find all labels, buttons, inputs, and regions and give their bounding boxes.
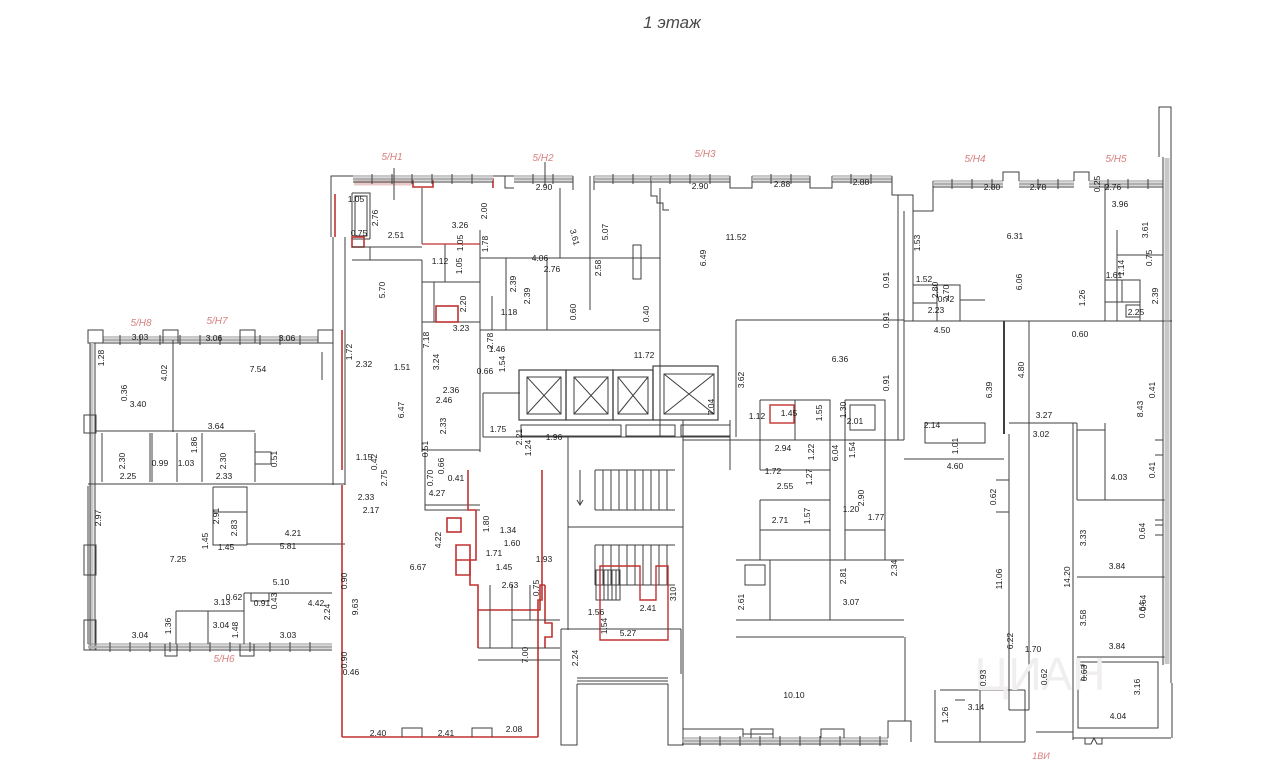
svg-text:2.36: 2.36 [443,385,460,395]
porch steps right [683,738,773,744]
left wing bottom pilaster 1 [165,644,177,656]
elevator shaft 4 box [664,374,714,414]
main body left wall gray 237-330 [333,237,345,485]
wall 3.24 right [479,322,481,452]
svg-text:2.41: 2.41 [438,728,455,738]
svg-text:1.45: 1.45 [781,408,798,418]
svg-text:2.91: 2.91 [211,507,221,524]
svg-text:2.20: 2.20 [458,295,468,312]
room 11.52 left wall [659,330,661,437]
room 1.05 2.76 box [352,193,370,239]
elevator lobby wall vertical x730 [729,420,731,470]
svg-text:7.04: 7.04 [706,398,716,415]
elevator shaft 1 X [527,377,561,414]
svg-text:6.22: 6.22 [1005,632,1015,649]
bottom right step 10.10 [888,721,905,738]
svg-text:2.76: 2.76 [370,209,380,226]
section small rooms bottom [736,559,904,561]
svg-text:1.46: 1.46 [489,344,506,354]
svg-text:0.99: 0.99 [152,458,169,468]
left wing bottom pilaster 2 [240,644,254,656]
svg-text:5.07: 5.07 [600,223,610,240]
svg-text:3.58: 3.58 [1078,609,1088,626]
wall between 3.40 and 7.54 [172,340,174,432]
svg-text:4.02: 4.02 [159,364,169,381]
svg-text:5/Н4: 5/Н4 [964,154,986,165]
stair mid landing line [568,526,683,528]
top window wall segment E [752,175,810,177]
svg-text:0.25: 0.25 [1092,175,1102,192]
svg-text:3.06: 3.06 [206,333,223,343]
top wall red band fill [354,181,412,186]
right column left wall [1072,423,1074,740]
left wing left pilaster c [84,620,96,650]
room 2.91 1.45 box [213,487,247,545]
red zone small rooms outline [478,585,552,648]
vestibule step lines [577,678,668,684]
svg-text:2.88: 2.88 [853,177,870,187]
svg-text:2.39: 2.39 [508,275,518,292]
wall 6.39 horizontal [904,458,1004,460]
wall 4.60 horizontal [904,458,1004,460]
svg-text:0.66: 0.66 [477,366,494,376]
main body bottom red wall [342,736,538,738]
svg-text:2.46: 2.46 [436,395,453,405]
bottom wall right section [1036,732,1171,738]
svg-text:2.32: 2.32 [356,359,373,369]
room 0.62 niche [996,480,1009,512]
svg-text:2.39: 2.39 [1150,287,1160,304]
wall 2.94 [760,470,830,500]
room 11.52 bottom wall [683,439,904,441]
svg-text:0.43: 0.43 [269,592,279,609]
svg-text:3.16: 3.16 [1132,678,1142,695]
red outline center polygon [468,470,545,610]
svg-text:1.54: 1.54 [497,355,507,372]
top wall door recess 573-594 [573,176,594,190]
svg-text:2.80: 2.80 [930,281,940,298]
corridor slab 2 [626,425,675,436]
svg-text:6.06: 6.06 [1014,273,1024,290]
svg-text:9.63: 9.63 [350,598,360,615]
small rooms row under 3.40 [102,433,255,482]
svg-text:5/Н8: 5/Н8 [130,318,152,329]
main body left red wall lower [341,485,343,737]
svg-text:0.42: 0.42 [369,453,379,470]
svg-text:2.25: 2.25 [120,471,137,481]
stair arrow up [577,470,583,505]
wall 2.55 [760,529,830,531]
svg-text:2.01: 2.01 [847,416,864,426]
svg-text:3.84: 3.84 [1109,561,1126,571]
svg-text:2.81: 2.81 [838,567,848,584]
svg-text:0.36: 0.36 [119,384,129,401]
room 2.36 2.46 box [425,452,480,510]
svg-text:1.05: 1.05 [455,234,465,251]
top wall entrance recess 810-832 [810,176,832,188]
svg-text:0.41: 0.41 [448,473,465,483]
door marks bottom right [1085,738,1102,744]
wall right of 2.51 [421,188,423,244]
svg-text:0.62: 0.62 [988,488,998,505]
svg-text:1.51: 1.51 [394,362,411,372]
vestibule 3.14 walls [935,690,1025,742]
left wing pilaster 4 [318,330,333,343]
svg-text:1.48: 1.48 [230,621,240,638]
svg-text:3.27: 3.27 [1036,410,1053,420]
room 1.05 inner line [355,196,367,236]
svg-text:2.70: 2.70 [941,284,951,301]
wall x660 vertical [659,188,661,330]
red line top of 3.23 room [422,243,480,245]
left wing left pilaster a [84,415,96,433]
left wing bottom window wall [88,643,332,645]
room 5.07 left wall [589,176,591,310]
wall 3.62 vertical [735,320,737,437]
svg-text:2.55: 2.55 [777,481,794,491]
svg-text:1.27: 1.27 [804,468,814,485]
svg-text:3.26: 3.26 [452,220,469,230]
left wing pilaster 2 [163,330,178,343]
wall 7.18 vertical [421,260,423,452]
svg-text:2.41: 2.41 [640,603,657,613]
svg-text:6.36: 6.36 [832,354,849,364]
svg-text:1.96: 1.96 [546,432,563,442]
svg-text:3.33: 3.33 [1078,529,1088,546]
stair upper rails [595,470,675,510]
left wing top window wall [103,336,318,338]
svg-text:3.07: 3.07 [843,597,860,607]
left wing left wall gray band [91,343,94,650]
svg-text:1.26: 1.26 [940,706,950,723]
svg-text:2.00: 2.00 [479,202,489,219]
svg-text:0.62: 0.62 [1039,668,1049,685]
svg-text:1.18: 1.18 [501,307,518,317]
svg-text:1.12: 1.12 [749,411,766,421]
svg-text:11.06: 11.06 [994,568,1004,589]
svg-text:5.81: 5.81 [280,541,297,551]
svg-text:2.63: 2.63 [502,580,519,590]
top window wall 5/Н4 b [1019,180,1074,182]
svg-text:2.08: 2.08 [506,724,523,734]
svg-text:2.51: 2.51 [388,230,405,240]
top window wall segment D [651,175,730,177]
corridor slab 1 [521,425,621,436]
svg-text:0.64: 0.64 [1137,522,1147,539]
svg-text:2.78: 2.78 [1030,182,1047,192]
svg-text:3.03: 3.03 [132,332,149,342]
svg-text:1.72: 1.72 [765,466,782,476]
svg-text:3.96: 3.96 [1112,199,1129,209]
porch right of vestibule [683,729,743,745]
wall step between 6.49 and 5/Н4 [892,176,933,211]
elevator shaft 4 outer [653,366,718,420]
svg-text:2.76: 2.76 [544,264,561,274]
svg-text:0.40: 0.40 [641,305,651,322]
svg-text:1.14: 1.14 [1116,259,1126,276]
svg-text:1.77: 1.77 [868,512,885,522]
svg-text:0.90: 0.90 [339,651,349,668]
right column right wall [1162,321,1164,665]
elevator shaft 3 X [618,377,648,414]
svg-text:1.57: 1.57 [802,507,812,524]
svg-text:2.83: 2.83 [229,519,239,536]
room 4.04 3.16 box [1078,662,1158,728]
svg-text:4.21: 4.21 [285,528,302,538]
room 5.07 interior slot [633,245,641,279]
wall 3.23 horizontal [422,449,480,451]
top window wall segment B [514,175,573,177]
5/Н4 left wall [912,211,914,321]
svg-text:3.62: 3.62 [736,371,746,388]
svg-text:4.50: 4.50 [934,325,951,335]
closet 0.51 niche [255,452,271,464]
room 4.04 notch 0.63 [1078,665,1084,680]
svg-text:3.84: 3.84 [1109,641,1126,651]
svg-text:4.04: 4.04 [1110,711,1127,721]
5/Н5 interior walls [1117,230,1163,321]
red room 1.12 box [770,405,794,423]
svg-text:1 этаж: 1 этаж [643,13,702,32]
svg-text:3.64: 3.64 [208,421,225,431]
room 2.81 2.34 walls [736,560,904,620]
5/Н4 bottom wall [904,320,1172,322]
svg-text:1.55: 1.55 [814,404,824,421]
svg-text:3.03: 3.03 [280,630,297,640]
top-right wall protrusion [1159,107,1171,157]
svg-text:1.01: 1.01 [950,437,960,454]
stair flight lower treads [594,545,596,585]
svg-text:1.24: 1.24 [523,439,533,456]
porch pier left [561,674,577,745]
svg-text:4.03: 4.03 [1111,472,1128,482]
svg-text:0.64: 0.64 [1138,594,1148,611]
svg-text:310: 310 [668,587,678,601]
top window wall segment A [353,175,493,177]
svg-text:2.24: 2.24 [570,649,580,666]
svg-text:5/Н5: 5/Н5 [1105,154,1127,165]
svg-text:0.75: 0.75 [531,579,541,596]
svg-text:1.45: 1.45 [218,542,235,552]
svg-text:1.80: 1.80 [481,515,491,532]
stair lower rails [595,545,675,585]
svg-text:10.10: 10.10 [783,690,805,700]
svg-text:3.04: 3.04 [132,630,149,640]
right outer wall gray fill upper [1165,158,1170,320]
svg-text:1.75: 1.75 [490,424,507,434]
svg-text:6.67: 6.67 [410,562,427,572]
svg-text:0.41: 0.41 [1147,461,1157,478]
svg-text:2.80: 2.80 [984,182,1001,192]
svg-text:3.13: 3.13 [214,597,231,607]
corridor 11.06 bottom [1009,709,1029,711]
svg-text:3.06: 3.06 [279,333,296,343]
room 3.61 2.58 right wall [559,188,561,258]
svg-text:7.25: 7.25 [170,554,187,564]
room 1.34 1.60 walls [512,585,560,620]
vestibule 5.27 box [561,629,681,674]
wall 2.46 [425,504,480,506]
red wall right of 6.67 [538,470,542,737]
room 3.07 bottom wall [736,636,904,638]
bottom pilaster bump 1 [402,728,422,737]
svg-text:2.75: 2.75 [379,469,389,486]
svg-text:5.10: 5.10 [273,577,290,587]
svg-text:4.27: 4.27 [429,488,446,498]
svg-text:2.71: 2.71 [772,515,789,525]
svg-text:2.97: 2.97 [93,509,103,526]
small stair block [596,570,620,600]
red small box 0.51 [447,518,461,532]
elevator shaft 3 box [618,377,648,414]
porch pier right [668,674,683,745]
svg-text:1.03: 1.03 [178,458,195,468]
corridor slab 3 [681,425,730,436]
elevator shaft 2 X [574,377,608,414]
svg-text:4.06: 4.06 [532,253,549,263]
porch bump 5/Н5 [1074,172,1089,181]
elevator hall outer wall [483,393,520,437]
stair flight upper treads [594,470,596,510]
red niche 0.75 [352,237,364,247]
right outer wall upper [1163,157,1171,321]
wall 2.83 horizontal 5.81 [247,543,345,545]
corridor below shafts [483,436,730,438]
bottom pilaster bump 2 [472,728,492,737]
elevator shaft 2 box [574,377,608,414]
svg-text:1.71: 1.71 [486,548,503,558]
svg-text:0.75: 0.75 [351,228,368,238]
room 10.10 left wall [682,630,684,674]
left wing pilaster 3 [240,330,255,343]
svg-text:6.04: 6.04 [830,444,840,461]
svg-text:0.93: 0.93 [978,669,988,686]
elevator shaft 2 outer [566,370,613,420]
wall 4.50 area vertical [1003,321,1005,434]
svg-text:0.51: 0.51 [420,440,430,457]
svg-text:1.30: 1.30 [838,401,848,418]
room 8.43 niche 0.41 a [1155,440,1163,455]
svg-text:7.00: 7.00 [520,646,530,663]
svg-text:2.23: 2.23 [928,305,945,315]
svg-text:6.39: 6.39 [984,381,994,398]
svg-text:0.46: 0.46 [343,667,360,677]
svg-text:1.12: 1.12 [432,256,449,266]
svg-text:0.41: 0.41 [1147,381,1157,398]
room 3.02 3.27 walls [1077,423,1105,500]
top window wall segment F [832,175,892,177]
top wall entrance recess 730-752 [730,176,752,188]
svg-text:3.04: 3.04 [213,620,230,630]
5/Н4 room 6.31 right wall [1104,184,1106,321]
wall 2.51 bottom [352,246,422,248]
svg-text:1.05: 1.05 [454,257,464,274]
red room 1.93 outline [600,566,668,640]
svg-text:2.30: 2.30 [117,452,127,469]
svg-text:0.66: 0.66 [436,457,446,474]
svg-text:2.17: 2.17 [363,505,380,515]
left wing left wall inner line [94,343,96,650]
wall 5.10 [244,592,332,594]
svg-text:1.54: 1.54 [599,617,609,634]
svg-text:2.61: 2.61 [736,593,746,610]
svg-text:2.58: 2.58 [593,259,603,276]
outer wall top-left corner [331,176,353,237]
svg-text:7.18: 7.18 [421,331,431,348]
right outer wall gray fill lower [1165,322,1170,664]
bottom bump 1 [751,729,773,738]
svg-text:11.72: 11.72 [634,350,655,360]
room 1.61 1.14 walls [1105,280,1140,321]
svg-text:0.51: 0.51 [269,450,279,467]
room 10.10 right wall [905,637,911,742]
witness lines [393,168,395,200]
svg-text:5/Н7: 5/Н7 [206,316,228,327]
svg-text:2.90: 2.90 [856,489,866,506]
svg-text:4.60: 4.60 [947,461,964,471]
svg-text:1.53: 1.53 [912,234,922,251]
top window wall 5/Н4 [933,180,1003,182]
top wall red band 5/Н1 [353,179,493,188]
small rooms bottom wall [88,483,345,485]
svg-text:2.33: 2.33 [438,417,448,434]
svg-text:1.78: 1.78 [480,235,490,252]
svg-text:2.94: 2.94 [775,443,792,453]
small closet 5/Н5 [1126,305,1140,317]
svg-text:1.56: 1.56 [588,607,605,617]
room 4.80 walls [1009,423,1077,500]
stair enclosure [568,420,683,630]
left wing left outer wall [89,343,91,650]
wall 1.12 area [422,282,480,322]
rooms 1.45 bottom [478,659,560,661]
bottom bump 2 [821,729,844,738]
rooms 3.26 1.05 walls [422,230,480,322]
corridor 11.06 walls [1009,321,1029,710]
top window wall 5/Н5 [1089,180,1163,182]
rooms 1.12 1.55 block [760,400,830,470]
svg-text:3.23: 3.23 [453,323,470,333]
svg-text:8.43: 8.43 [1135,400,1145,417]
svg-text:2.33: 2.33 [358,492,375,502]
svg-text:2.90: 2.90 [536,182,553,192]
svg-text:2.24: 2.24 [322,603,332,620]
svg-text:7.54: 7.54 [250,364,267,374]
svg-text:1.22: 1.22 [806,443,816,460]
svg-text:2.40: 2.40 [370,728,387,738]
svg-text:2.88: 2.88 [774,179,791,189]
svg-text:1.26: 1.26 [1077,289,1087,306]
left wing mid wall [87,486,89,644]
top window wall segment C [594,175,651,177]
svg-text:1.60: 1.60 [504,538,521,548]
porch bump right [743,729,773,734]
svg-text:1.54: 1.54 [847,441,857,458]
svg-text:1.28: 1.28 [96,349,106,366]
svg-text:2.90: 2.90 [692,181,709,191]
room 2.14 1.01 shelf [925,423,985,443]
svg-text:1.05: 1.05 [348,194,365,204]
rooms 2.71 1.57 walls [760,440,830,560]
svg-text:2.30: 2.30 [218,452,228,469]
vestibule 3.14 interior [955,690,980,742]
svg-text:6.31: 6.31 [1007,231,1024,241]
svg-text:4.80: 4.80 [1016,361,1026,378]
left wing pilaster 1 [88,330,103,343]
svg-text:5/Н1: 5/Н1 [381,152,402,163]
svg-text:0.70: 0.70 [425,469,435,486]
bathroom fixtures small [745,565,765,585]
